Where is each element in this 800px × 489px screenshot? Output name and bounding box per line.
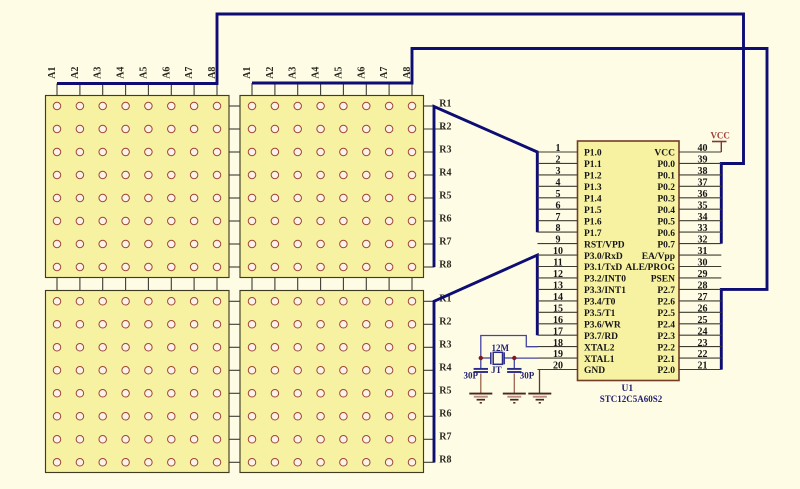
- svg-text:29: 29: [698, 269, 708, 280]
- ground 3: [528, 394, 551, 403]
- svg-text:30: 30: [698, 258, 708, 269]
- svg-text:P0.2: P0.2: [657, 183, 675, 193]
- svg-text:A4: A4: [116, 67, 127, 79]
- svg-text:P3.5/T1: P3.5/T1: [584, 309, 616, 319]
- wire bus A: DS1 columns to P0.0-P0.7 (pins 39-32): [57, 14, 744, 244]
- svg-text:PSEN: PSEN: [651, 275, 675, 285]
- svg-text:P0.7: P0.7: [657, 240, 675, 250]
- svg-text:P0.6: P0.6: [657, 229, 675, 239]
- svg-text:R2: R2: [439, 317, 451, 328]
- svg-text:36: 36: [698, 189, 708, 200]
- svg-text:R5: R5: [439, 386, 451, 397]
- svg-text:P0.4: P0.4: [657, 206, 675, 216]
- svg-text:R3: R3: [439, 340, 451, 351]
- svg-text:XTAL1: XTAL1: [584, 355, 615, 365]
- svg-text:27: 27: [698, 292, 708, 303]
- DS4 right row pins: [424, 301, 435, 462]
- svg-text:R5: R5: [439, 190, 451, 201]
- svg-text:13: 13: [553, 281, 563, 292]
- svg-text:37: 37: [698, 177, 708, 188]
- svg-text:R8: R8: [439, 455, 451, 466]
- svg-text:A3: A3: [93, 67, 104, 79]
- svg-text:34: 34: [698, 212, 708, 223]
- DS2 right row pins: [424, 106, 446, 267]
- svg-text:A4: A4: [311, 67, 322, 79]
- svg-text:6: 6: [556, 200, 561, 211]
- U1 right pin names: [625, 149, 675, 377]
- wire bus C: DS2 rows R1-R8 to P1.0-P1.7 (pins 1-8): [434, 107, 537, 268]
- svg-text:30P: 30P: [520, 371, 535, 381]
- svg-text:R7: R7: [439, 432, 451, 443]
- svg-text:VCC: VCC: [654, 149, 675, 159]
- svg-text:24: 24: [698, 326, 708, 337]
- svg-text:P0.5: P0.5: [657, 217, 675, 227]
- DS1-DS3 column interconnect pins: [57, 278, 217, 292]
- svg-text:R4: R4: [439, 167, 451, 178]
- svg-text:P0.0: P0.0: [657, 160, 675, 170]
- svg-text:A2: A2: [265, 67, 276, 79]
- svg-text:P3.4/T0: P3.4/T0: [584, 298, 616, 308]
- svg-text:10: 10: [553, 246, 563, 257]
- ground 2: [503, 394, 526, 403]
- svg-text:R6: R6: [439, 213, 451, 224]
- U1 right pins 40-21: [679, 152, 721, 370]
- svg-text:P2.6: P2.6: [657, 298, 675, 308]
- svg-text:33: 33: [698, 223, 708, 234]
- svg-text:2: 2: [556, 155, 561, 166]
- wire bus D: DS4 rows R1-R8 to P3.0-P3.7 (pins 10-17): [434, 255, 537, 462]
- DS2 top column pins: [252, 83, 412, 96]
- svg-text:R7: R7: [439, 236, 451, 247]
- svg-text:P3.0/RxD: P3.0/RxD: [584, 252, 623, 262]
- DS1-DS2 row interconnect pins: [229, 106, 241, 267]
- svg-text:P3.3/INT1: P3.3/INT1: [584, 286, 626, 296]
- svg-text:A6: A6: [161, 67, 172, 79]
- svg-text:P2.1: P2.1: [657, 355, 675, 365]
- svg-text:1: 1: [556, 143, 561, 154]
- svg-text:A5: A5: [333, 67, 344, 79]
- svg-text:35: 35: [698, 200, 708, 211]
- svg-text:P2.3: P2.3: [657, 332, 675, 342]
- svg-text:39: 39: [698, 155, 708, 166]
- svg-text:17: 17: [553, 326, 563, 337]
- svg-text:A7: A7: [379, 67, 390, 79]
- DS3-DS4 row interconnect pins: [229, 301, 241, 462]
- LED dot-matrix display DS1 body: [46, 96, 230, 278]
- svg-text:25: 25: [698, 315, 708, 326]
- svg-text:9: 9: [556, 235, 561, 246]
- svg-text:R2: R2: [439, 121, 451, 132]
- U1 right pin numbers 40-21: [698, 143, 708, 372]
- svg-text:R6: R6: [439, 409, 451, 420]
- svg-text:31: 31: [698, 246, 708, 257]
- capacitor C2 30P: [507, 358, 521, 393]
- svg-text:A1: A1: [47, 67, 58, 79]
- svg-text:P1.0: P1.0: [584, 149, 602, 159]
- svg-text:A5: A5: [138, 67, 149, 79]
- svg-text:A2: A2: [70, 67, 81, 79]
- svg-text:22: 22: [698, 349, 708, 360]
- svg-text:R3: R3: [439, 144, 451, 155]
- svg-text:VCC: VCC: [710, 131, 730, 141]
- svg-text:14: 14: [553, 292, 563, 303]
- wire XTAL2: pin 18 to crystal left node: [481, 336, 538, 359]
- svg-text:7: 7: [556, 212, 561, 223]
- wire bus B: DS2 columns to P2.0-P2.7 (pins 21-28): [252, 49, 767, 370]
- svg-text:P1.5: P1.5: [584, 206, 602, 216]
- svg-text:26: 26: [698, 303, 708, 314]
- svg-text:P1.3: P1.3: [584, 183, 602, 193]
- svg-text:P2.7: P2.7: [657, 286, 675, 296]
- wire GND: pin 20 down to ground: [539, 370, 541, 393]
- capacitor C1 30P: [474, 358, 488, 393]
- svg-text:GND: GND: [584, 366, 605, 376]
- svg-text:18: 18: [553, 338, 563, 349]
- power VCC symbol at pin 40: [710, 131, 730, 152]
- crystal JT 12M: [491, 352, 504, 364]
- svg-text:A7: A7: [184, 67, 195, 79]
- svg-text:3: 3: [556, 166, 561, 177]
- svg-text:P3.2/INT0: P3.2/INT0: [584, 275, 626, 285]
- svg-text:P2.5: P2.5: [657, 309, 675, 319]
- svg-text:STC12C5A60S2: STC12C5A60S2: [600, 394, 663, 404]
- svg-text:32: 32: [698, 235, 708, 246]
- svg-text:R1: R1: [439, 98, 451, 109]
- LED dot-matrix display DS3 body: [46, 291, 230, 473]
- LED dot-matrix display DS2 body: [240, 96, 424, 278]
- svg-text:P2.2: P2.2: [657, 343, 675, 353]
- crystal JT leads: [481, 357, 491, 359]
- junction dot crystal right node: [512, 356, 516, 360]
- svg-text:8: 8: [556, 223, 561, 234]
- DS2-DS4 column interconnect pins: [252, 278, 412, 292]
- ground 1: [469, 394, 492, 403]
- svg-text:P2.4: P2.4: [657, 320, 675, 330]
- svg-text:R8: R8: [439, 259, 451, 270]
- IC U1 STC12C5A60S2 body: [578, 141, 680, 381]
- wire XTAL1: crystal right node to pin 19: [514, 357, 538, 359]
- svg-text:P3.6/WR: P3.6/WR: [584, 320, 621, 330]
- svg-text:P0.3: P0.3: [657, 195, 675, 205]
- svg-text:A6: A6: [356, 67, 367, 79]
- svg-text:23: 23: [698, 338, 708, 349]
- svg-text:P1.2: P1.2: [584, 172, 602, 182]
- svg-text:P3.7/RD: P3.7/RD: [584, 332, 618, 342]
- svg-text:A1: A1: [242, 67, 253, 79]
- svg-text:EA/Vpp: EA/Vpp: [642, 252, 675, 262]
- svg-text:12: 12: [553, 269, 563, 280]
- svg-text:U1: U1: [621, 384, 633, 394]
- svg-text:12M: 12M: [492, 343, 510, 353]
- DS1 top column pins: [57, 84, 217, 97]
- svg-text:XTAL2: XTAL2: [584, 343, 615, 353]
- svg-text:P1.4: P1.4: [584, 195, 602, 205]
- U1 left pin numbers 1-20: [553, 143, 563, 372]
- svg-text:28: 28: [698, 281, 708, 292]
- svg-text:20: 20: [553, 361, 563, 372]
- svg-text:ALE/PROG: ALE/PROG: [625, 263, 675, 273]
- svg-text:30P: 30P: [464, 371, 479, 381]
- svg-text:P1.7: P1.7: [584, 229, 602, 239]
- svg-text:4: 4: [556, 177, 561, 188]
- svg-text:RST/VPD: RST/VPD: [584, 240, 625, 250]
- svg-text:21: 21: [698, 361, 708, 372]
- svg-text:JT: JT: [491, 365, 502, 375]
- svg-text:19: 19: [553, 349, 563, 360]
- svg-text:A3: A3: [288, 67, 299, 79]
- svg-text:5: 5: [556, 189, 561, 200]
- svg-text:38: 38: [698, 166, 708, 177]
- U1 left pin names: [584, 149, 626, 377]
- svg-text:P0.1: P0.1: [657, 172, 675, 182]
- U1 left pins 1-20: [538, 152, 578, 370]
- svg-text:40: 40: [698, 143, 708, 154]
- svg-text:R4: R4: [439, 363, 451, 374]
- svg-text:P1.6: P1.6: [584, 217, 602, 227]
- svg-text:P1.1: P1.1: [584, 160, 602, 170]
- svg-text:11: 11: [553, 258, 562, 269]
- svg-text:P3.1/TxD: P3.1/TxD: [584, 263, 622, 273]
- svg-text:P2.0: P2.0: [657, 366, 675, 376]
- LED dot-matrix display DS4 body: [240, 291, 424, 473]
- junction dot crystal left node: [479, 356, 483, 360]
- svg-text:16: 16: [553, 315, 563, 326]
- svg-text:15: 15: [553, 303, 563, 314]
